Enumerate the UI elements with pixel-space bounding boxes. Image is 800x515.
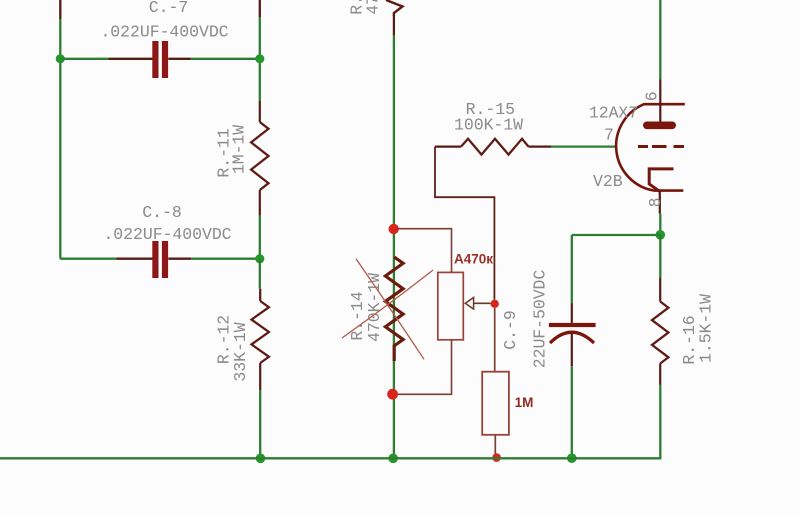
node: C-9 at rail (567, 453, 577, 463)
wire: bottom rail (0, 457, 661, 459)
svg-text:100K-1W: 100K-1W (454, 116, 523, 135)
wire: C-8 left green segment (corner from left bus) (60, 258, 116, 260)
wire: C-7 left green segment (60, 58, 109, 60)
potentiometer bottom lead (398, 340, 452, 395)
tube pin 6 lead (dark red) (659, 80, 661, 122)
svg-text:V2B: V2B (593, 172, 623, 191)
capacitor C9 bottom lead (571, 334, 573, 366)
svg-text:.022UF-400VDC: .022UF-400VDC (100, 22, 228, 41)
node: cathode junction (656, 230, 666, 240)
node: red wiper junction (491, 300, 499, 308)
scribble: cross-out stroke 1 over R-14 (356, 259, 424, 360)
capacitor C7 left lead (109, 58, 153, 60)
node: R12 at bottom rail (256, 454, 266, 464)
wire: green below C-8 node (259, 259, 261, 289)
wire: green R16 top (659, 235, 661, 278)
svg-text:22UF-50VDC: 22UF-50VDC (531, 270, 550, 369)
capacitor C8 plates (152, 241, 158, 278)
resistor 1M top lead (494, 308, 496, 372)
wire: green C-9 bottom to rail (571, 366, 573, 458)
node: junction at right of C-7 (255, 54, 264, 63)
resistor R11 bottom lead (259, 190, 261, 216)
wire: green R11 to C-8 node (259, 216, 261, 259)
wire: green from stub to C-7 node (259, 17, 261, 101)
resistor R15 left lead (435, 146, 461, 148)
wire: middle vertical green (top) (393, 35, 395, 234)
wire: pin 8 green to junction (659, 214, 661, 236)
wire: left vertical green bus (59, 19, 61, 259)
capacitor C9 top plate (549, 323, 596, 327)
svg-text:1.5K-1W: 1.5K-1W (697, 294, 716, 363)
tube pin 6 wire (green from top) (659, 0, 661, 80)
potentiometer body (438, 272, 464, 339)
resistor R15 zigzag (461, 139, 529, 155)
svg-text:1M: 1M (515, 395, 534, 410)
svg-text:470K-1W: 470K-1W (364, 0, 383, 15)
node: junction at left of C-7 (56, 54, 65, 63)
resistor R12 top lead (259, 289, 261, 301)
wire: green R16 to rail corner (659, 385, 661, 458)
tube pin 8 lead (dark red) (659, 191, 661, 214)
resistor 1M bottom lead (494, 435, 496, 454)
svg-text:R.-14: R.-14 (348, 291, 367, 340)
wire: dark red from R15 left down to wiper node (435, 147, 494, 300)
capacitor C9 curved plate (550, 332, 594, 343)
resistor R11 zigzag (251, 122, 268, 190)
capacitor C8 right lead (168, 258, 191, 260)
scribble: cross-out stroke 2 over R-14 (342, 270, 433, 338)
wire: green C-9 top (571, 235, 573, 303)
resistor R16 top lead (659, 278, 661, 302)
node: red junction 1M at rail (492, 453, 501, 462)
svg-text:12AX7: 12AX7 (589, 104, 638, 123)
resistor 1M body (482, 372, 509, 435)
node: middle vertical at rail (388, 454, 398, 464)
svg-text:C.-8: C.-8 (142, 203, 181, 222)
capacitor C9 top lead (571, 303, 573, 323)
resistor R12 zigzag (252, 301, 269, 363)
resistor R15 right lead (529, 146, 552, 148)
svg-text:7: 7 (604, 125, 614, 144)
svg-text:.022UF-400VDC: .022UF-400VDC (103, 225, 231, 244)
resistor R14 zigzag (bold, over green wire) (385, 257, 403, 361)
capacitor C7 right lead (168, 58, 191, 60)
svg-text:33K-1W: 33K-1W (231, 322, 250, 381)
resistor R11 top lead (259, 101, 261, 122)
resistor R13 partial zigzag at top (386, 0, 403, 16)
wire: green horizontal cathode to C-9 (572, 234, 661, 236)
tube V2B envelope (616, 104, 685, 190)
svg-text:6: 6 (642, 91, 661, 101)
resistor R16 bottom lead (659, 364, 661, 385)
svg-text:C.-7: C.-7 (149, 0, 188, 17)
wire: middle vertical green (through R-14) (393, 234, 395, 390)
node: red junction top of pot (389, 224, 399, 234)
potentiometer top lead (398, 229, 452, 273)
tube grid dashes (638, 145, 684, 148)
wire: right vertical top stub (dark red lead from above) (259, 0, 261, 17)
node: red junction bottom of pot (387, 389, 398, 400)
wire: C-7 right green segment (191, 58, 260, 60)
potentiometer wiper lead (474, 302, 491, 304)
resistor R12 bottom lead (259, 363, 261, 390)
resistor R13 bottom lead (393, 15, 395, 35)
svg-text:C.-9: C.-9 (501, 310, 520, 349)
potentiometer wiper arrow (465, 298, 473, 310)
capacitor C8 left lead (116, 258, 152, 260)
wire: middle vertical green (to rail) (393, 390, 395, 458)
capacitor C7 plates (152, 41, 158, 78)
wire: green R12 to rail (259, 390, 261, 458)
svg-text:8: 8 (646, 197, 665, 207)
wire: left vertical top stub (dark red lead from above) (59, 0, 61, 19)
wire: green R15 to tube grid (551, 145, 617, 147)
svg-text:1M-1W: 1M-1W (230, 125, 249, 174)
tube cathode (649, 169, 673, 192)
node: junction C-8 / R-11 / R-12 (255, 254, 264, 263)
resistor R16 zigzag (652, 302, 668, 364)
tube plate (643, 122, 676, 130)
svg-text:470K-1W: 470K-1W (365, 273, 384, 342)
svg-text:A470к: A470к (454, 251, 493, 266)
wire: C-8 right green segment (191, 258, 259, 260)
